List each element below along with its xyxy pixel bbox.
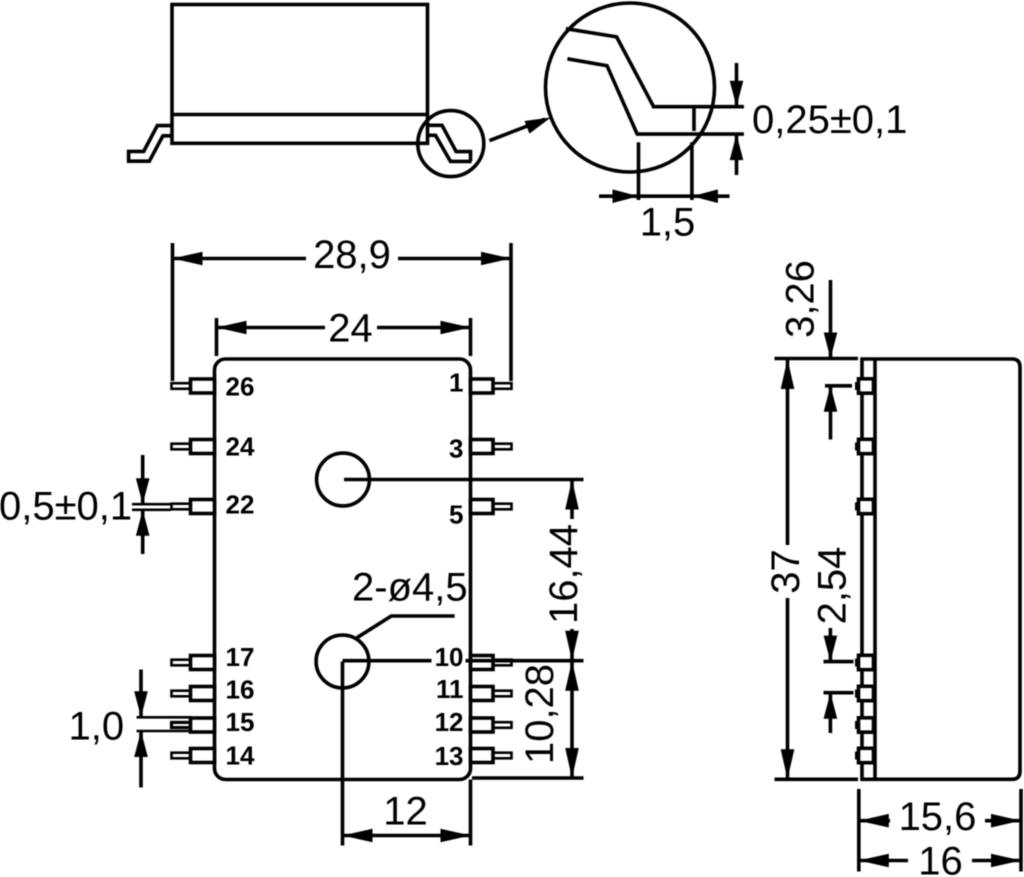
svg-text:1,5: 1,5 — [640, 201, 696, 245]
svg-text:24: 24 — [226, 432, 255, 462]
dim 16 line — [859, 859, 908, 863]
side view body — [172, 5, 428, 144]
detail lead foot end — [692, 107, 696, 131]
svg-text:26: 26 — [226, 372, 255, 402]
pin 17 — [172, 660, 191, 666]
dim 12 arrows — [343, 829, 373, 843]
svg-text:28,9: 28,9 — [313, 233, 391, 277]
side view seam line — [172, 113, 428, 117]
dim 10,28 arrows — [565, 661, 579, 691]
dim 24 left extension — [215, 318, 219, 356]
pin 15 — [172, 722, 191, 727]
svg-text:14: 14 — [226, 741, 255, 771]
svg-text:10,28: 10,28 — [518, 664, 562, 764]
dim 16 arrows — [859, 854, 889, 868]
dim 28,9 left extension — [171, 243, 175, 381]
dim 0,5 extension lines — [132, 503, 171, 506]
svg-text:1: 1 — [449, 368, 463, 398]
end view inner line — [873, 359, 877, 779]
end view pin 1 — [859, 379, 874, 393]
dim 2,54 upper arrow — [829, 628, 833, 660]
svg-text:16: 16 — [918, 840, 963, 877]
pin 24 — [172, 444, 191, 450]
end view pin 1 nub — [855, 382, 860, 390]
hole upper center line — [344, 478, 584, 482]
left gull-wing lead — [129, 126, 173, 162]
dim 16,44 line — [570, 480, 574, 520]
dim 37 bottom extension — [775, 777, 859, 781]
dim 37 top extension — [775, 357, 859, 361]
dim 0,25 upper extension line — [652, 105, 744, 109]
small detail circle — [418, 111, 484, 177]
dim 12 line — [343, 834, 471, 838]
dim 10,28 bottom extension — [472, 776, 584, 780]
svg-text:11: 11 — [436, 674, 464, 704]
svg-text:2-ø4,5: 2-ø4,5 — [352, 566, 468, 610]
package body top view — [215, 359, 471, 780]
label 2-ø4,5 leader — [357, 616, 455, 638]
svg-text:15: 15 — [226, 707, 255, 737]
dim 2,54 lower arrow — [829, 694, 833, 733]
dim 15,6/16 left extension — [857, 789, 861, 872]
end view pin 5 — [859, 499, 874, 513]
end view pin 13 — [859, 748, 874, 762]
hole lower center line — [343, 659, 432, 663]
dim 12 right extension — [469, 780, 473, 846]
dim 28,9 arrows — [173, 252, 203, 266]
svg-text:2,54: 2,54 — [811, 547, 855, 625]
pin 13 — [493, 753, 512, 759]
dim 0,5 upper arrow — [141, 455, 145, 503]
dim 1,5 left arrow — [613, 189, 639, 203]
dim 1,5 line — [599, 194, 730, 198]
hole upper — [317, 453, 370, 506]
pin 11 — [493, 691, 512, 697]
dim 24 right extension — [469, 318, 473, 356]
dim 1,5 right arrow — [692, 189, 718, 203]
pin 3 — [493, 444, 512, 450]
end view pin 3 nub — [855, 443, 860, 451]
dim 3,26 row extension — [825, 384, 852, 388]
dim 15,6/16 right extension — [1019, 789, 1023, 872]
detail lead upper outline — [566, 29, 654, 107]
svg-text:3: 3 — [449, 434, 463, 464]
dim 37 arrows — [781, 359, 795, 389]
svg-text:16: 16 — [226, 675, 255, 705]
pin 14 — [172, 753, 191, 759]
dim 10,28 line — [570, 661, 574, 778]
svg-text:3,26: 3,26 — [779, 260, 823, 338]
dim 0,25 upper arrow — [735, 63, 739, 105]
dim 24 arrows — [217, 321, 247, 335]
detail lead lower outline — [567, 59, 637, 134]
dim 1,0 upper arrow — [139, 670, 143, 717]
svg-text:10: 10 — [435, 642, 464, 672]
leader arrow to detail — [490, 119, 546, 140]
dim 1,5 left extension line — [637, 142, 641, 200]
svg-text:12: 12 — [435, 707, 464, 737]
pin 12 — [493, 722, 512, 728]
dim 0,5 lower arrow — [141, 511, 145, 554]
end view pin 12 nub — [855, 721, 860, 729]
svg-text:17: 17 — [226, 642, 255, 672]
dim 37 line — [786, 359, 790, 545]
svg-text:12: 12 — [383, 790, 428, 834]
svg-text:5: 5 — [449, 500, 463, 530]
end view pin 10 — [859, 655, 874, 669]
dim 16,44 arrows — [565, 480, 579, 510]
svg-text:1,0: 1,0 — [69, 705, 125, 749]
dim 1,0 extension lines — [137, 716, 193, 719]
svg-text:37: 37 — [764, 549, 808, 594]
pin 10 — [493, 660, 512, 666]
pin 22 — [172, 504, 191, 510]
end view pin 3 — [859, 439, 874, 453]
detail circle — [546, 3, 715, 172]
dim 2,54 row extensions — [824, 660, 854, 664]
pin 26 — [172, 383, 191, 389]
dim 0,25 lower extension line — [636, 132, 744, 136]
svg-text:15,6: 15,6 — [899, 795, 977, 839]
dim 24 line — [217, 326, 326, 330]
end view pin 13 nub — [855, 752, 860, 760]
dim 28,9 right extension — [509, 243, 513, 381]
end view pin 11 nub — [855, 690, 860, 698]
hole lower — [316, 635, 369, 688]
end view pin 11 — [859, 686, 874, 700]
pin 1 — [493, 383, 512, 389]
dim 15,6 arrows — [859, 814, 889, 828]
dim 3,26 upper arrow — [829, 280, 833, 357]
dim 1,0 lower arrow — [139, 732, 143, 788]
pin 5 — [493, 504, 512, 510]
right gull-wing lead — [428, 125, 472, 161]
end view pin 5 nub — [855, 503, 860, 511]
svg-text:13: 13 — [435, 741, 464, 771]
dim 28,9 line — [173, 257, 307, 261]
svg-text:24: 24 — [328, 307, 373, 351]
svg-text:0,25±0,1: 0,25±0,1 — [752, 98, 907, 142]
hole lower vertical line / dim 12 left extension — [341, 662, 345, 846]
end view pin 12 — [859, 718, 874, 732]
pin 16 — [172, 691, 191, 697]
dim 3,26 lower arrow — [829, 387, 833, 440]
dim 0,25 lower arrow — [735, 135, 739, 175]
end view pin 10 nub — [855, 659, 860, 667]
dim 1,5 right extension line — [690, 142, 694, 200]
svg-text:16,44: 16,44 — [542, 524, 586, 624]
dim 15,6 line — [859, 819, 890, 823]
svg-text:0,5±0,1: 0,5±0,1 — [0, 485, 132, 529]
svg-text:22: 22 — [226, 490, 255, 520]
end view body — [862, 359, 1020, 779]
